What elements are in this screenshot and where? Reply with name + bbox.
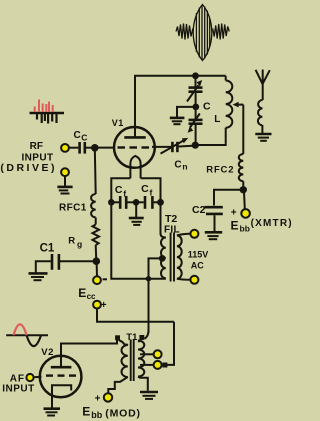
terminal Ecc plus xyxy=(93,301,101,309)
svg-text:C: C xyxy=(74,130,81,141)
label Cf (left) xyxy=(115,184,126,198)
wire Cf right junction to T2 winding xyxy=(161,202,166,237)
tube V1 xyxy=(114,127,155,178)
wire V1 filament left leg to Cf rail xyxy=(111,178,130,202)
terminal Ebb (XMTR) xyxy=(241,209,250,218)
svg-text:R: R xyxy=(68,236,75,247)
terminal Ebb (MOD) xyxy=(104,393,112,401)
terminal 115V AC upper xyxy=(190,230,198,238)
svg-text:C: C xyxy=(115,184,123,196)
node Cf middle junction xyxy=(133,199,140,206)
wire AF terminal to V2 grid xyxy=(34,376,42,378)
inductor L (tank coil) xyxy=(196,76,233,145)
wire junction to Ebb XMTR terminal xyxy=(243,190,246,209)
node T1 terminal feed xyxy=(162,363,167,368)
svg-text:FIL: FIL xyxy=(164,225,180,236)
svg-text:C: C xyxy=(203,100,211,112)
svg-text:+: + xyxy=(95,394,101,405)
wire terminal to Cc xyxy=(69,147,78,149)
wire cathode return right branch down to T1 terminal xyxy=(166,322,174,365)
wire T1 secondary bottom to ground xyxy=(138,377,148,391)
wire V1 plate to tank top xyxy=(135,76,226,138)
wire Rg to C1 junction xyxy=(95,245,98,261)
svg-text:E: E xyxy=(231,218,239,232)
label Cc xyxy=(74,130,88,143)
svg-text:bb: bb xyxy=(240,224,250,234)
wire junction to V1 grid xyxy=(95,147,115,149)
label Ebb (MOD) xyxy=(82,404,141,419)
wire tap down to RFC2 xyxy=(242,105,244,154)
node Cf left junction xyxy=(108,199,115,206)
terminal T1 upper xyxy=(154,350,162,358)
terminal 115V AC lower xyxy=(190,276,198,284)
wire C to mid junction xyxy=(195,93,197,107)
wire antenna to ground xyxy=(261,125,263,134)
svg-text:V1: V1 xyxy=(112,118,124,128)
label 115V AC xyxy=(188,250,209,271)
terminal RF input (lower) xyxy=(61,168,69,176)
node tank top junction xyxy=(192,72,199,79)
node RFC2 bottom junction xyxy=(240,186,247,193)
label Ebb (XMTR) xyxy=(231,218,293,234)
wire mid junction to padder capacitor xyxy=(195,107,197,119)
wire V1 grid to Cn xyxy=(152,146,171,148)
svg-text:E: E xyxy=(82,404,90,418)
node tank mid junction xyxy=(192,104,199,111)
wire Cf left junction down to filament return xyxy=(111,202,148,278)
label T2 FIL xyxy=(164,213,180,236)
svg-text:T1: T1 xyxy=(126,332,138,343)
wire tap to T1 primary winding xyxy=(119,340,126,346)
label Ecc xyxy=(78,286,96,301)
wire V1 filament right leg to Cf rail xyxy=(141,178,161,202)
svg-text:RFC1: RFC1 xyxy=(59,202,87,213)
wire terminal to ground xyxy=(64,176,66,186)
label AF INPUT xyxy=(2,374,35,395)
inductor RFC1 xyxy=(91,194,96,217)
tap arrow on L to RFC2 line xyxy=(233,102,244,108)
node T1 secondary top (square tap) xyxy=(145,330,149,339)
wire V2 plate to T1 primary xyxy=(61,340,117,368)
wire C1 to ground xyxy=(36,261,51,272)
svg-text:115V: 115V xyxy=(188,250,209,260)
svg-text:cc: cc xyxy=(87,292,96,301)
svg-text:(DRIVE): (DRIVE) xyxy=(0,162,57,174)
capacitor C (variable) xyxy=(187,80,203,102)
wire Cc to grid junction xyxy=(86,147,95,149)
node grid junction xyxy=(91,144,99,152)
svg-text:C: C xyxy=(174,159,181,170)
wire junction up to T2 center tap xyxy=(149,258,163,278)
capacitor Cn (neutralizing, variable) xyxy=(161,138,189,154)
ground (C1) xyxy=(29,273,48,280)
wire junction to Ecc minus terminal xyxy=(96,261,98,276)
wire Ecc plus to cathode return xyxy=(97,309,174,322)
inductor RFC2 xyxy=(239,154,244,181)
wire T1 primary bottom to Ebb MOD terminal xyxy=(108,377,128,393)
svg-text:C: C xyxy=(141,183,149,195)
label Cn xyxy=(174,159,187,171)
wire RFC2 to junction xyxy=(242,181,244,190)
antenna loading coil xyxy=(258,100,263,125)
label RF INPUT (DRIVE) xyxy=(0,141,57,174)
modulated RF envelope waveform xyxy=(176,5,229,61)
svg-text:C1: C1 xyxy=(40,242,55,254)
svg-text:L: L xyxy=(214,114,220,125)
wire mid junction to tank ground xyxy=(177,107,196,117)
wire junction to capacitor C xyxy=(195,76,197,87)
svg-text:E: E xyxy=(78,286,86,300)
svg-text:+: + xyxy=(101,300,107,311)
svg-text:f: f xyxy=(123,189,126,199)
wire V2 cathode to ground xyxy=(51,401,53,409)
svg-text:V2: V2 xyxy=(41,347,54,358)
tube V2 xyxy=(40,356,82,401)
wire C1 to junction xyxy=(60,260,96,262)
ground (C2) xyxy=(205,232,222,239)
terminal AF input xyxy=(26,374,33,381)
svg-text:RF: RF xyxy=(30,141,43,152)
ground (Cf) xyxy=(129,218,144,225)
red/black RF drive pulse symbol xyxy=(30,100,65,124)
svg-text:f: f xyxy=(150,188,153,198)
ground (tank) xyxy=(170,118,185,124)
sine wave (AF signal) xyxy=(6,324,48,346)
wire RFC1 to Rg xyxy=(95,217,97,224)
svg-text:+: + xyxy=(231,208,237,219)
node Cf right junction xyxy=(157,199,164,206)
ground (V2 cathode) xyxy=(44,409,61,416)
svg-text:AC: AC xyxy=(191,260,204,270)
capacitor C1 xyxy=(52,254,59,270)
wire padder to tank bottom junction xyxy=(195,125,197,145)
node tank bottom junction xyxy=(192,142,199,149)
capacitor Cf (left) xyxy=(111,196,136,209)
wire T1 secondary tap lower xyxy=(140,364,154,366)
node C1 junction xyxy=(93,257,101,265)
svg-text:RFC2: RFC2 xyxy=(206,165,234,176)
label Rg xyxy=(68,236,82,249)
svg-text:T2: T2 xyxy=(165,213,177,225)
capacitor Cc xyxy=(80,142,85,154)
svg-text:C2: C2 xyxy=(192,204,206,216)
antenna xyxy=(256,70,270,101)
wire cathode return down to T1 xyxy=(148,279,150,333)
node T2 center tap xyxy=(159,255,166,262)
resistor Rg xyxy=(93,225,100,246)
node T1 primary top (square tap) xyxy=(115,335,120,340)
svg-text:bb: bb xyxy=(91,410,102,420)
svg-text:(MOD): (MOD) xyxy=(105,408,141,420)
transformer T1 xyxy=(121,340,144,382)
capacitor (tank padder, variable) xyxy=(188,114,203,133)
wire Cf middle to ground xyxy=(135,202,137,217)
node filament return junction xyxy=(146,276,151,281)
ground (T1) xyxy=(140,392,158,399)
capacitor Cf (right) xyxy=(136,196,160,209)
transformer T2 xyxy=(161,233,190,282)
terminal Ecc minus xyxy=(93,276,101,284)
svg-text:n: n xyxy=(182,162,187,172)
svg-text:g: g xyxy=(77,239,82,249)
terminal T1 lower xyxy=(154,361,162,369)
ground (antenna) xyxy=(255,134,271,141)
terminal RF input (upper) xyxy=(61,144,69,152)
capacitor C2 xyxy=(205,207,223,231)
svg-text:(XMTR): (XMTR) xyxy=(251,218,293,229)
svg-text:INPUT: INPUT xyxy=(2,383,35,394)
wire grid junction down to RFC1 xyxy=(94,148,97,194)
svg-text:C: C xyxy=(81,133,87,143)
label minus (Ecc) xyxy=(103,278,107,280)
wire T1 secondary tap upper xyxy=(140,353,154,355)
wire junction to C2 xyxy=(214,190,243,206)
label Cf (right) xyxy=(141,183,152,197)
ground (RF input) xyxy=(57,187,72,194)
wire filament return to T2 left winding bottom xyxy=(149,278,166,280)
wire Cn to tank bottom junction xyxy=(179,145,196,148)
